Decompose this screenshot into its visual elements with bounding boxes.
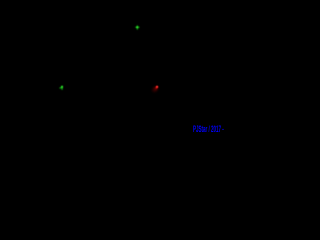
red light <box>152 86 158 92</box>
green firefly cross top <box>135 25 139 29</box>
green firefly left <box>59 86 62 90</box>
watermark PJStar / 2017 <box>193 125 224 134</box>
